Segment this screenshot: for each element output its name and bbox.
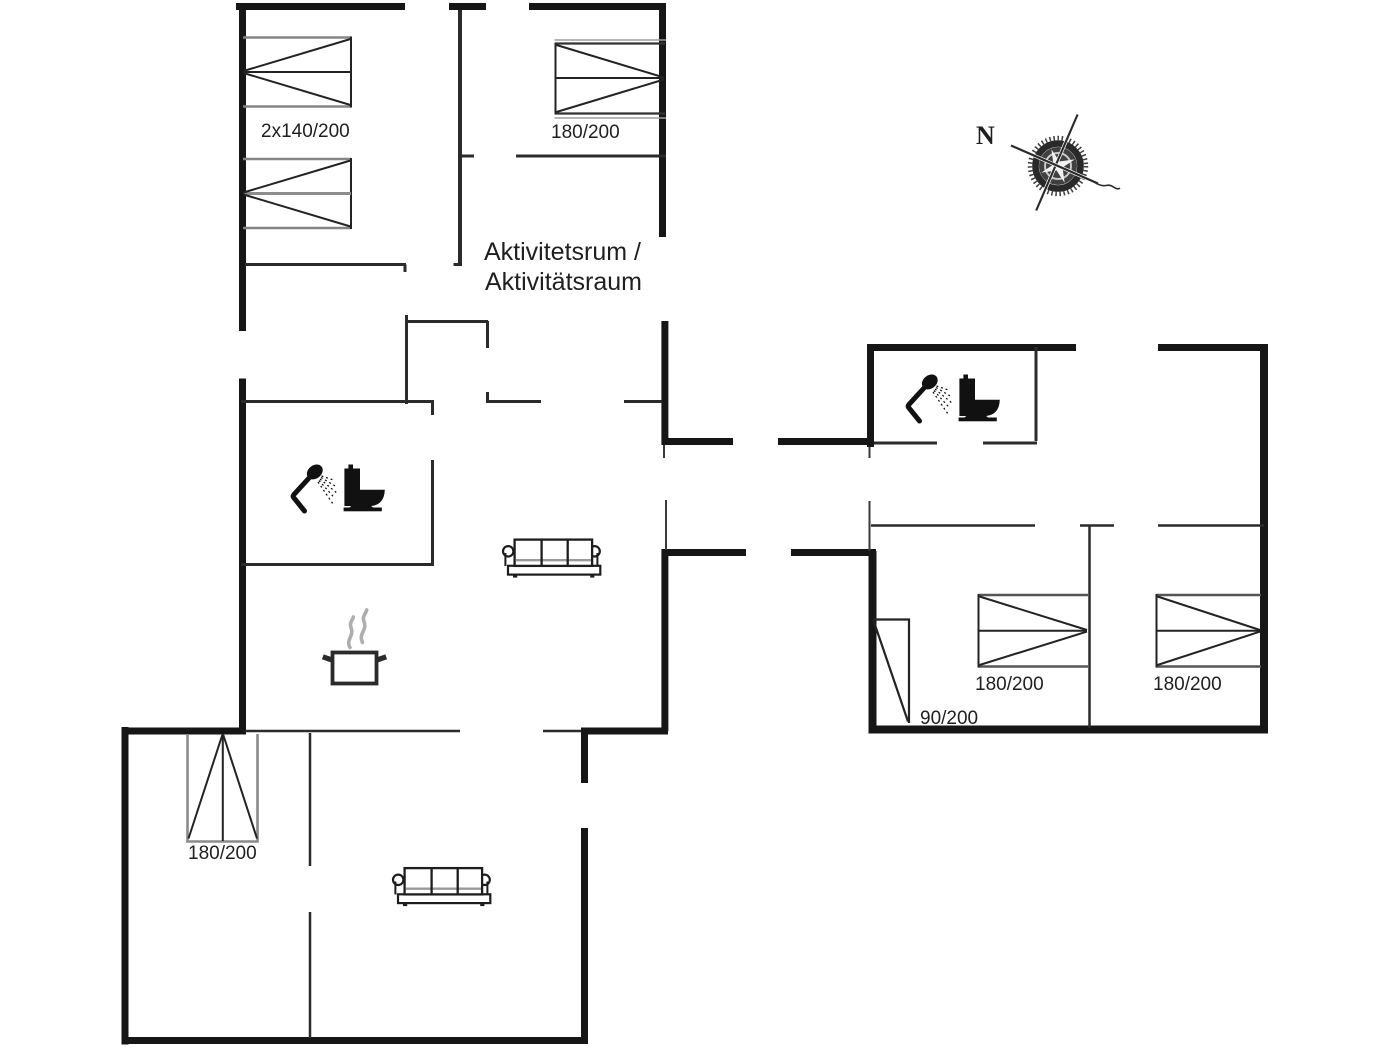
wall bathroom2 left thin piece (869, 501, 871, 551)
svg-text:180/200: 180/200 (1153, 674, 1222, 695)
wall left-upper (239, 3, 246, 331)
wall hall north thin mid (488, 400, 541, 403)
wardrobe 90/200 (SE wing) (873, 620, 910, 724)
wall SE top right (1158, 344, 1267, 351)
svg-text:Aktivitätsraum: Aktivitätsraum (485, 268, 642, 296)
door tick bathroom1 (431, 402, 434, 416)
door tick bathroom2 left (869, 447, 871, 458)
wall interior vertical foot (454, 263, 462, 266)
svg-text:N: N (976, 121, 995, 150)
bathroom 1 icons (shower + toilet) (293, 461, 385, 511)
bed 180/200 (SE middle room) (979, 594, 1089, 668)
bed 180/200 vertical (SW room) (188, 734, 258, 842)
wall bathroom2 bottom right (983, 442, 1037, 445)
vestibule right wall lower (486, 392, 489, 403)
ring (1036, 144, 1081, 189)
white star arms (1041, 149, 1074, 182)
needle NNE-SSW (1036, 115, 1077, 211)
wall NE-room right (659, 3, 666, 237)
wall bathroom2 bottom left (874, 442, 937, 445)
bed 180/200 (SE right room) (1157, 594, 1262, 668)
east curl (1094, 182, 1120, 189)
wall left wing top thin left (245, 730, 460, 733)
wall mid vertical thin piece (665, 500, 667, 550)
wall top-B (449, 3, 486, 10)
wall SE top left (867, 344, 1076, 351)
wall left wing top thick right (581, 728, 668, 735)
wall SE interior horizontal right (1158, 524, 1264, 527)
wall bathroom2 right (1035, 347, 1038, 441)
wall SE divider vertical (1088, 526, 1091, 728)
vestibule left wall (405, 315, 408, 404)
wall NE-room bottom (245, 263, 406, 266)
wall SE interior horizontal left (871, 524, 1035, 527)
wall SE right (1260, 344, 1268, 734)
wall SE bottom (869, 726, 1269, 734)
wall left wing divider lower (309, 912, 312, 1038)
inner disk (1039, 147, 1077, 185)
vestibule top wall (405, 320, 488, 323)
wall bathroom2 left (867, 344, 874, 447)
svg-text:180/200: 180/200 (188, 843, 257, 864)
svg-text:90/200: 90/200 (920, 708, 978, 729)
compass (1011, 115, 1120, 211)
bed pair 2x140/200 upper (NE room) (243, 37, 351, 108)
wall interior vertical (x460) (458, 10, 462, 266)
steam (349, 610, 367, 648)
wall bathroom1 top (241, 400, 434, 403)
svg-text:180/200: 180/200 (551, 122, 620, 143)
wall hall south left (662, 549, 747, 556)
wall left wing right lower (581, 828, 588, 1044)
wall left wing divider upper (309, 733, 312, 866)
sofa 1 (living area center) (503, 540, 600, 578)
wall top-C (529, 3, 666, 10)
sofa 2 (SW living room) (393, 868, 490, 906)
wall bathroom1 right (431, 460, 434, 566)
wall left wing top thick left (122, 728, 246, 735)
pot (323, 653, 386, 684)
wall mid vertical lower (661, 549, 668, 731)
bed pair 2x140/200 lower (NE room) (243, 158, 351, 229)
bed 180/200 (top-middle room) (555, 40, 667, 118)
teeth ring (1030, 138, 1086, 194)
wall left-lower (239, 379, 246, 735)
svg-text:Aktivitetsrum /: Aktivitetsrum / (484, 238, 641, 266)
wall hall north right (778, 438, 874, 445)
bathroom 2 icons (shower + toilet) (908, 371, 1000, 421)
wall SE left (869, 551, 877, 734)
wall bedroom2 bottom (516, 155, 666, 158)
wall bathroom1 bottom (241, 563, 434, 566)
wall left wing top thin right (543, 730, 581, 733)
wall left wing bottom (122, 1037, 589, 1044)
door tick mid vertical (663, 445, 665, 458)
wall mid vertical upper (661, 321, 668, 445)
needle WNW-ESE (1011, 146, 1120, 189)
inner white circle (1045, 153, 1071, 179)
wall SE interior horizontal mid (1080, 524, 1114, 527)
wall bedroom2 bottom stub (462, 155, 474, 158)
wall left wing right upper (581, 731, 588, 783)
wall hall north thin right (624, 400, 662, 403)
wall hall south right (791, 549, 876, 556)
svg-text:180/200: 180/200 (975, 674, 1044, 695)
vestibule right wall upper (486, 321, 489, 348)
wall left wing left (122, 727, 129, 1045)
door tick NE-room (404, 265, 407, 273)
wall hall north left (662, 438, 734, 445)
wall top-A (236, 3, 405, 10)
svg-text:2x140/200: 2x140/200 (261, 121, 350, 142)
